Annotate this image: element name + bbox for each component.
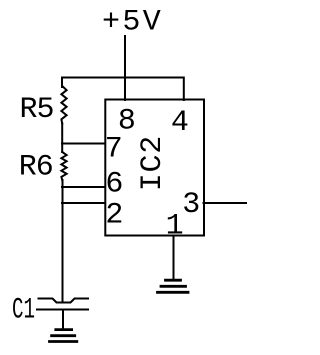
- wire C1 to ground: [62, 310, 64, 329]
- wire pin 1 to ground: [173, 236, 175, 280]
- wire below R6 to capacitor C1: [62, 180, 64, 301]
- capacitor C1 bottom plate: [37, 309, 88, 311]
- wire +5V to pin 8: [124, 36, 126, 100]
- svg-text:7: 7: [105, 132, 123, 166]
- svg-text:R6: R6: [19, 150, 53, 184]
- svg-text:3: 3: [182, 188, 200, 222]
- svg-text:2: 2: [105, 199, 123, 233]
- wire to pin 6: [62, 186, 105, 188]
- svg-text:IC2: IC2: [136, 135, 170, 191]
- svg-text:1: 1: [166, 209, 184, 243]
- svg-text:6: 6: [105, 168, 123, 202]
- wire pin 3 output: [204, 202, 247, 204]
- svg-text:4: 4: [171, 106, 189, 140]
- svg-text:R5: R5: [20, 93, 54, 127]
- wire to pin 2: [62, 202, 105, 204]
- wire R5 to R6: [61, 124, 63, 153]
- wire top rail to pin 4: [62, 78, 184, 101]
- ground under C1: [50, 330, 77, 342]
- ground under pin 1: [158, 280, 189, 292]
- resistor R5: [61, 86, 66, 124]
- wire to pin 7: [62, 143, 105, 145]
- capacitor C1 top plate: [39, 299, 89, 303]
- resistor R6: [61, 152, 66, 180]
- svg-text:+5V: +5V: [102, 6, 163, 40]
- svg-text:C1: C1: [12, 292, 35, 327]
- op-amp/timer IC2 box: [105, 100, 204, 236]
